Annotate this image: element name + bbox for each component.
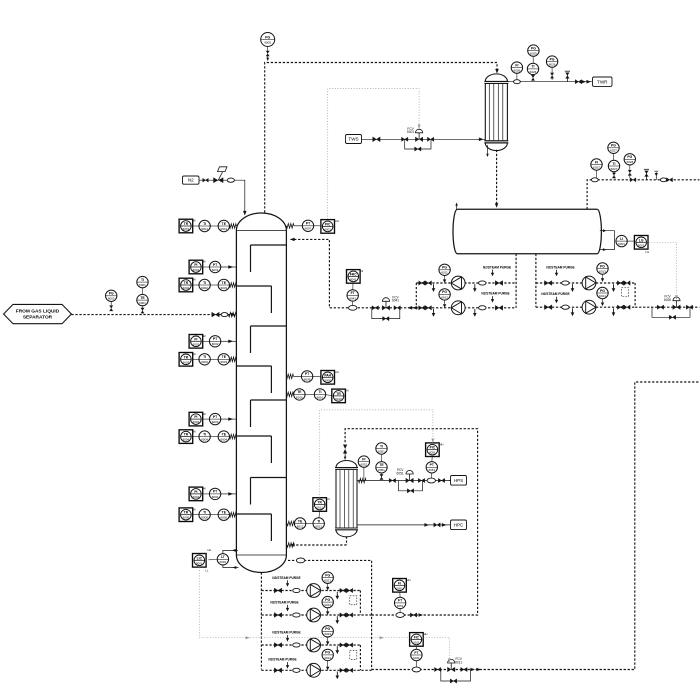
svg-text:6002: 6002: [220, 286, 227, 290]
instrument FIC 6011 (shared display): [410, 632, 428, 646]
instrument LI 6001: [616, 235, 627, 246]
instrument PI 6051: [358, 456, 369, 467]
off-page connector TWS: [346, 135, 362, 144]
tray: [251, 245, 287, 272]
svg-text:6027: 6027: [611, 167, 618, 171]
valve: [545, 281, 552, 286]
valve: [427, 137, 433, 141]
nozzle: [286, 392, 293, 396]
nozzle: [230, 283, 237, 287]
svg-text:N2/STEAM PURGE: N2/STEAM PURGE: [272, 631, 300, 635]
svg-text:6003: 6003: [193, 420, 200, 424]
svg-text:HI: HI: [193, 429, 196, 433]
valve: [415, 147, 421, 151]
svg-text:PG: PG: [611, 144, 616, 148]
flow arrow: [495, 203, 499, 208]
svg-text:TE: TE: [379, 463, 384, 467]
flow arrow: [470, 668, 475, 672]
bottoms pump line P-6002B: [261, 614, 371, 616]
svg-text:TI: TI: [317, 519, 320, 523]
svg-text:TWR: TWR: [597, 79, 608, 84]
drain: [571, 308, 575, 316]
pump A drop to B line: [359, 591, 361, 616]
valve: [274, 613, 281, 618]
instrument PI 6003 (shared display): [189, 412, 206, 426]
svg-text:6001: 6001: [220, 560, 227, 564]
valve: [617, 305, 623, 309]
svg-text:PG: PG: [627, 155, 632, 159]
instrument PT 6051: [426, 462, 437, 473]
off-page connector HPS: [451, 476, 467, 486]
svg-text:6010: 6010: [335, 397, 342, 401]
svg-text:HH: HH: [440, 442, 444, 446]
svg-text:PI: PI: [194, 337, 197, 341]
svg-text:TWS: TWS: [348, 137, 358, 142]
instrument TR 6012 (shared display): [313, 497, 330, 511]
svg-text:6004: 6004: [201, 438, 208, 442]
svg-text:HI: HI: [193, 278, 196, 282]
drain: [336, 672, 340, 680]
N2/steam purge connection: [481, 292, 509, 303]
svg-text:TE: TE: [222, 281, 227, 285]
valve: [347, 643, 353, 647]
valve: [624, 305, 630, 309]
instrument PG: [322, 596, 333, 607]
instrument PG: [322, 649, 333, 660]
valve: [274, 588, 281, 593]
level to flow cascade signal: [199, 567, 409, 637]
flow control signal to FCV: [424, 637, 450, 661]
pump C drop to D line: [634, 283, 636, 307]
valve: [434, 523, 440, 527]
level control signal: [649, 242, 677, 298]
valve: [419, 306, 425, 310]
instrument FT 6011: [411, 649, 422, 660]
instrument FT 6051: [394, 597, 405, 608]
svg-text:6003: 6003: [183, 360, 190, 364]
svg-text:HI: HI: [193, 507, 196, 511]
svg-text:6027: 6027: [593, 165, 600, 169]
svg-text:6001: 6001: [139, 283, 146, 287]
flow element / flange: [412, 667, 420, 672]
valve: [340, 643, 346, 647]
svg-text:TR: TR: [184, 433, 189, 437]
instrument TE 6010: [294, 389, 305, 400]
condensate line to reflux drum: [496, 150, 498, 207]
instrument TR 6004 (shared display): [179, 429, 196, 443]
svg-text:6026: 6026: [664, 298, 671, 302]
svg-text:6051: 6051: [378, 449, 385, 453]
flow arrow: [243, 211, 247, 216]
instrument PG: [322, 572, 333, 583]
svg-text:TR: TR: [336, 392, 341, 396]
svg-text:6001: 6001: [196, 561, 203, 565]
svg-text:N2/STEAM PURGE: N2/STEAM PURGE: [268, 658, 296, 662]
flow arrow: [424, 523, 429, 527]
nozzle: [286, 224, 294, 228]
svg-text:TI: TI: [531, 65, 534, 69]
nozzle: [230, 513, 237, 517]
svg-text:6023: 6023: [324, 632, 331, 636]
svg-text:6005: 6005: [201, 516, 208, 520]
svg-text:TI: TI: [318, 390, 321, 394]
instrument PAH 6008 (shared display): [321, 370, 339, 384]
valve: [274, 668, 281, 673]
svg-text:HI: HI: [361, 269, 364, 273]
valve: [212, 312, 219, 317]
valve: [686, 305, 692, 309]
bypass: [405, 139, 431, 149]
vent valve: [644, 169, 649, 180]
valve: [461, 667, 467, 671]
instrument TE 6001: [137, 294, 148, 305]
instrument PG 6028: [624, 154, 635, 165]
flow element / flange: [293, 613, 300, 617]
instrument PIC 6001 (shared display): [321, 219, 339, 233]
instrument TI 6027: [608, 160, 619, 171]
valve: [340, 613, 346, 617]
flow element / flange: [221, 313, 228, 317]
reflux pump C line: [536, 282, 635, 284]
svg-text:6001: 6001: [324, 227, 331, 231]
drum vent: [456, 204, 458, 210]
svg-text:FI: FI: [595, 160, 598, 164]
nozzle: [287, 521, 294, 525]
svg-text:6041: 6041: [349, 296, 356, 300]
svg-text:6025: 6025: [530, 52, 537, 56]
svg-text:6001: 6001: [638, 243, 645, 247]
svg-text:TR: TR: [184, 222, 189, 226]
instrument TI: [199, 220, 210, 231]
flow element / flange: [562, 281, 569, 285]
svg-text:6004: 6004: [212, 495, 219, 499]
svg-text:N2/STEAM PURGE: N2/STEAM PURGE: [272, 576, 300, 580]
instrument PI 6002 (shared display): [189, 334, 206, 348]
level tap upper: [223, 550, 238, 553]
condenser E-6001 (shell and tube, vertical): [484, 74, 508, 151]
svg-text:6001: 6001: [407, 130, 414, 134]
svg-text:6003: 6003: [220, 360, 227, 364]
feed line from separator: [71, 314, 233, 316]
valve: [340, 668, 346, 672]
svg-text:6002: 6002: [193, 342, 200, 346]
svg-text:6027: 6027: [610, 149, 617, 153]
svg-text:PG: PG: [531, 46, 536, 50]
valve: [435, 667, 441, 671]
flow arrow: [290, 238, 295, 242]
svg-text:TI: TI: [612, 162, 615, 166]
flow element / flange: [562, 305, 569, 309]
svg-text:6004: 6004: [193, 495, 200, 499]
bottoms pump P-6002D: [307, 663, 321, 677]
valve: [389, 478, 395, 482]
valve: [373, 137, 380, 142]
instrument PI 6004 (shared display): [189, 487, 206, 501]
nozzle: [287, 543, 294, 547]
svg-text:6001: 6001: [212, 268, 219, 272]
reflux pump P-6001D: [582, 300, 596, 314]
valve: [438, 478, 444, 482]
instrument TE 6012: [294, 518, 305, 529]
instrument TR 6005 (shared display): [179, 507, 196, 521]
svg-text:6026: 6026: [530, 70, 537, 74]
reflux pump P-6001A: [451, 276, 465, 290]
svg-text:6003: 6003: [212, 420, 219, 424]
column bottoms line / discharge header: [288, 560, 372, 669]
instrument LIC 6001 (shared display): [193, 554, 207, 568]
svg-text:6021: 6021: [324, 579, 331, 583]
valve: [545, 305, 552, 310]
instrument TI 6051: [376, 443, 387, 454]
flow element / flange: [514, 80, 521, 84]
valve: [450, 679, 456, 683]
svg-text:N2/STEAM PURGE: N2/STEAM PURGE: [481, 292, 509, 296]
pump suction B: [535, 254, 537, 307]
drain: [612, 284, 616, 292]
svg-text:LG: LG: [646, 250, 650, 254]
angle valve into cooler: [343, 445, 347, 454]
drain: [571, 284, 575, 292]
svg-text:PAH: PAH: [324, 373, 331, 377]
drain: [612, 308, 616, 316]
HPC condensate line: [357, 524, 450, 526]
flow element / flange: [591, 178, 598, 182]
distillate product line: [635, 306, 699, 308]
instrument TR 6002 (shared display): [179, 278, 196, 292]
off-page connector TWR: [593, 77, 613, 86]
reflux pump P-6001C: [582, 276, 596, 290]
instrument TR 6003 (shared display): [179, 352, 196, 366]
svg-text:6001: 6001: [183, 227, 190, 231]
svg-text:HI: HI: [203, 487, 206, 491]
flow element / flange: [479, 281, 486, 285]
svg-text:6001: 6001: [193, 268, 200, 272]
bottoms pump line P-6002A: [261, 590, 360, 592]
valve: [347, 588, 353, 592]
flow arrow: [442, 523, 447, 527]
svg-text:PI: PI: [194, 263, 197, 267]
svg-text:6026: 6026: [549, 63, 556, 67]
svg-text:TR: TR: [184, 511, 189, 515]
valve: [657, 305, 663, 309]
column C-6001 (fractionator): [236, 213, 286, 573]
svg-text:6012: 6012: [316, 506, 323, 510]
svg-text:PI: PI: [194, 415, 197, 419]
svg-text:TI: TI: [203, 355, 206, 359]
svg-text:HPS: HPS: [454, 478, 463, 483]
N2/steam purge connection: [270, 600, 298, 611]
valve: [394, 306, 400, 310]
svg-text:TI: TI: [380, 444, 383, 448]
drain: [473, 309, 477, 317]
svg-text:6008: 6008: [324, 378, 331, 382]
svg-text:TE: TE: [222, 432, 227, 436]
bottoms product line: [372, 382, 700, 670]
drain: [432, 309, 436, 317]
flow arrow: [476, 668, 481, 672]
svg-text:6051: 6051: [361, 463, 368, 467]
nozzle: [286, 374, 293, 378]
valve: [410, 613, 416, 617]
svg-text:6051: 6051: [429, 451, 436, 455]
svg-text:6004: 6004: [183, 438, 190, 442]
instrument PG 6014: [597, 287, 608, 298]
drain: [336, 646, 340, 654]
svg-text:PI: PI: [194, 490, 197, 494]
bottoms pump suction header: [260, 573, 262, 670]
small vent: [654, 171, 658, 180]
valve: [617, 281, 623, 285]
svg-text:6002: 6002: [212, 342, 219, 346]
svg-text:TI: TI: [203, 432, 206, 436]
svg-text:TE: TE: [222, 222, 227, 226]
flow arrow: [581, 80, 586, 84]
spare tie-in (dashed): [350, 650, 357, 659]
svg-text:TE: TE: [298, 519, 303, 523]
valve: [630, 178, 636, 182]
nozzle: [230, 434, 237, 438]
svg-text:6011: 6011: [413, 640, 420, 644]
instrument PT 6008: [301, 371, 312, 382]
flow element / flange: [296, 558, 304, 563]
svg-text:HH: HH: [208, 548, 212, 552]
reflux drum D-6001: [453, 209, 601, 254]
svg-text:PIC: PIC: [430, 446, 436, 450]
reflux pump B line: [400, 307, 516, 309]
pump A drop to B line: [415, 283, 417, 308]
valve: [274, 643, 281, 648]
svg-text:PG: PG: [442, 266, 447, 270]
flow arrow: [455, 203, 458, 206]
svg-text:N2: N2: [188, 178, 194, 183]
svg-text:SEPARATOR: SEPARATOR: [23, 315, 53, 321]
N2/steam purge connection: [483, 265, 511, 276]
instrument FRC 6041 (shared display): [347, 269, 364, 283]
instrument PG 6025: [528, 45, 539, 56]
svg-text:LG: LG: [639, 238, 644, 242]
svg-text:TR: TR: [317, 501, 322, 505]
flow arrow: [413, 306, 418, 310]
cooler outlet drop: [346, 537, 348, 546]
temperature to pressure cascade signal: [320, 410, 433, 498]
flow arrow: [232, 549, 236, 552]
instrument FI 6027: [591, 159, 602, 170]
pressure control signal: [328, 89, 419, 220]
valve: [383, 317, 389, 321]
flow arrow: [233, 566, 237, 569]
instrument PG 6002: [106, 290, 117, 301]
svg-text:HH: HH: [335, 219, 339, 223]
instrument FI 6026: [511, 62, 522, 73]
instrument PG 6013: [597, 263, 608, 274]
instrument TE: [218, 354, 229, 365]
cooling water supply line: [362, 138, 486, 140]
pumparound to bottoms cooler: [345, 429, 478, 615]
drain: [336, 616, 340, 624]
flow arrow: [479, 138, 484, 142]
valve: [203, 178, 209, 182]
instrument LT 6001: [217, 554, 228, 565]
svg-text:6041: 6041: [350, 277, 357, 281]
drain: [473, 284, 477, 292]
svg-text:N2/STEAM PURGE: N2/STEAM PURGE: [546, 265, 574, 269]
svg-text:PG: PG: [109, 292, 114, 296]
svg-text:PG: PG: [325, 574, 330, 578]
valve: [495, 305, 502, 310]
svg-text:PG: PG: [325, 627, 330, 631]
bottoms pump line P-6002D: [261, 669, 371, 671]
instrument TR 6001 (shared display): [179, 219, 196, 233]
quench return to column: [291, 544, 347, 546]
instrument TR 6010 (shared display): [332, 389, 349, 403]
bypass: [399, 481, 423, 491]
level bridle: [600, 231, 615, 250]
svg-text:6024: 6024: [324, 656, 331, 660]
svg-text:PG: PG: [600, 289, 605, 293]
instrument PG 6012: [439, 289, 450, 300]
pump suction A: [515, 254, 517, 308]
N2/steam purge connection: [541, 292, 569, 303]
flow element / flange: [293, 643, 300, 647]
off-page connector N2: [183, 176, 200, 184]
svg-text:6005: 6005: [220, 516, 227, 520]
instrument TE: [218, 431, 229, 442]
distillate pump line: [536, 306, 635, 308]
svg-text:TE: TE: [222, 511, 227, 515]
svg-text:6001: 6001: [201, 227, 208, 231]
svg-text:6051: 6051: [378, 468, 385, 472]
flow element / flange: [396, 613, 404, 618]
svg-text:HI: HI: [203, 260, 206, 264]
valve: [340, 588, 346, 592]
svg-text:6008: 6008: [304, 377, 311, 381]
svg-text:6012: 6012: [297, 524, 304, 528]
valve: [372, 306, 378, 310]
svg-text:6051: 6051: [396, 586, 403, 590]
svg-text:TI: TI: [203, 511, 206, 515]
tray: [236, 366, 271, 393]
bottoms pump P-6002C: [307, 638, 321, 652]
N2/steam purge connection: [546, 265, 574, 276]
svg-text:FIC: FIC: [414, 635, 420, 639]
off-page connector FROM GAS LIQUID SEPARATOR: [4, 304, 72, 323]
instrument TI 6026: [527, 63, 538, 74]
control valve FCV 6026: [664, 295, 680, 310]
svg-text:N2/STEAM PURGE: N2/STEAM PURGE: [270, 600, 298, 604]
instrument TE 6051: [376, 462, 387, 473]
tray: [251, 400, 287, 427]
reflux pump P-6001B: [451, 301, 465, 315]
svg-text:PG: PG: [325, 598, 330, 602]
svg-text:FI: FI: [398, 581, 401, 585]
svg-text:6051: 6051: [397, 471, 404, 475]
cooling water return line: [507, 81, 592, 83]
flow element / flange: [293, 588, 300, 592]
svg-text:6002: 6002: [183, 286, 190, 290]
svg-text:6013: 6013: [599, 269, 606, 273]
control valve FCV 6001: [407, 127, 423, 142]
valve: [425, 306, 431, 310]
flow arrow: [231, 313, 236, 317]
svg-text:6011: 6011: [455, 660, 462, 664]
svg-text:TE: TE: [297, 390, 302, 394]
svg-text:HI: HI: [346, 389, 349, 393]
svg-text:TI: TI: [141, 278, 144, 282]
svg-text:6028: 6028: [626, 160, 633, 164]
valve: [624, 281, 630, 285]
flow element / flange: [227, 178, 234, 182]
svg-text:TI: TI: [203, 222, 206, 226]
